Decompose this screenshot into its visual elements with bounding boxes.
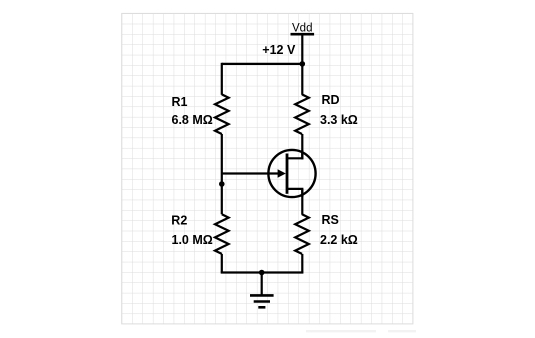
label R1 xyxy=(172,95,188,109)
svg-text:3.3 kΩ: 3.3 kΩ xyxy=(320,113,358,127)
node gate junction dot xyxy=(219,181,225,187)
label Vdd xyxy=(292,22,312,34)
label RD xyxy=(322,93,340,107)
value 2.2 kΩ xyxy=(320,233,358,247)
label R2 xyxy=(171,213,187,227)
wire left bottom vertical xyxy=(221,254,223,273)
wire gate xyxy=(222,172,279,174)
node ground junction dot xyxy=(259,270,265,276)
resistor R1 xyxy=(215,94,229,134)
wire bottom horizontal xyxy=(221,271,304,273)
value label +12 V xyxy=(262,43,296,57)
svg-text:+12 V: +12 V xyxy=(262,43,296,57)
label RS xyxy=(322,213,339,227)
svg-text:R1: R1 xyxy=(172,95,188,109)
wire left top vertical xyxy=(221,63,223,95)
wire RS bottom vertical xyxy=(301,254,303,273)
value 6.8 MΩ xyxy=(172,113,213,127)
wire RD to drain xyxy=(301,134,303,159)
wire Vdd bar to node A xyxy=(301,34,303,64)
resistor RS xyxy=(295,214,309,254)
wire top horizontal xyxy=(222,63,302,65)
svg-text:6.8 MΩ: 6.8 MΩ xyxy=(172,113,213,127)
svg-text:2.2 kΩ: 2.2 kΩ xyxy=(320,233,358,247)
svg-text:RS: RS xyxy=(322,213,339,227)
svg-text:RD: RD xyxy=(322,93,340,107)
svg-text:Vdd: Vdd xyxy=(292,22,312,34)
svg-text:1.0 MΩ: 1.0 MΩ xyxy=(172,233,213,247)
resistor RD xyxy=(295,94,309,134)
wire right top vertical xyxy=(301,64,303,95)
resistor R2 xyxy=(215,214,229,254)
value 1.0 MΩ xyxy=(172,233,213,247)
ground xyxy=(250,273,274,308)
value 3.3 kΩ xyxy=(320,113,358,127)
power symbol Vdd terminal bar xyxy=(291,33,315,36)
node A junction dot xyxy=(300,61,306,67)
svg-text:R2: R2 xyxy=(171,213,187,227)
wire left middle vertical xyxy=(221,134,223,214)
transistor Q1 N-JFET xyxy=(268,150,315,197)
wire source to RS xyxy=(301,189,303,215)
